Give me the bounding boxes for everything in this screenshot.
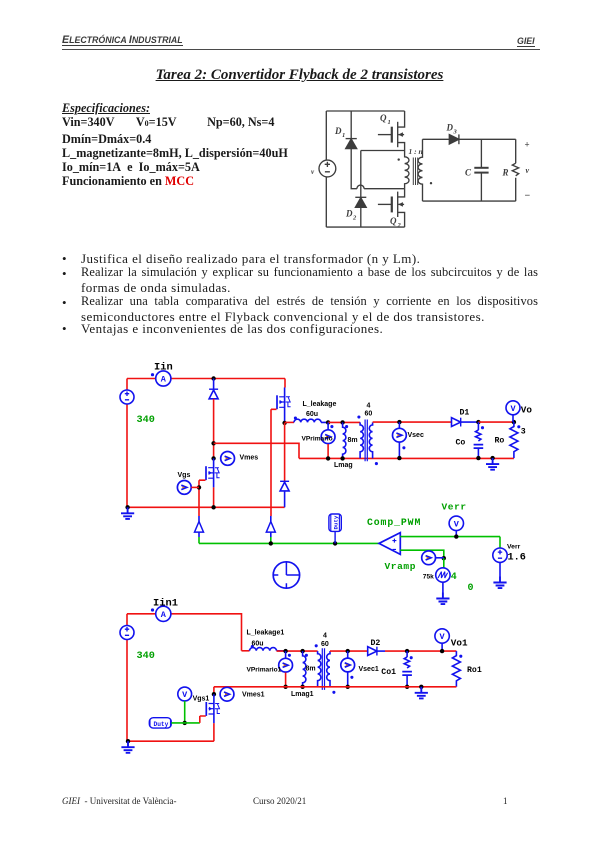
polarity dot Lmag1: [305, 654, 308, 657]
node: Vgs tap: [197, 485, 201, 489]
svg-text:D: D: [334, 126, 342, 136]
svg-text:340: 340: [137, 651, 155, 662]
title: [0, 67, 599, 84]
svg-text:340: 340: [137, 415, 155, 426]
wire: C1 left rail: [126, 379, 128, 508]
wire: primary return run: [214, 443, 299, 458]
wire: inner box top (D2 to primary top): [361, 150, 405, 152]
voltmeter Vsec1: [347, 651, 349, 658]
svg-text:C: C: [465, 168, 472, 178]
svg-text:Lmag1: Lmag1: [291, 691, 314, 698]
node: output top: [476, 420, 480, 424]
wire: secondary top run C2: [330, 650, 368, 652]
wire: secondary top run: [373, 421, 452, 423]
node: Vsec top: [397, 420, 401, 424]
svg-text:D2: D2: [371, 639, 381, 648]
wire: C2 lower rail: [214, 686, 457, 688]
diode D2 (output rectifier): [368, 647, 385, 656]
wire: C2 top rail: [127, 614, 242, 651]
header rule: [62, 49, 540, 50]
voltmeter Vo1: [435, 629, 449, 651]
diode D2: [345, 151, 366, 228]
source V 340 circuit2: [120, 626, 134, 640]
svg-text:60u: 60u: [306, 411, 318, 418]
ammeter Iin: [151, 371, 171, 386]
svg-text:4: 4: [367, 402, 371, 409]
svg-text:Vsec1: Vsec1: [359, 666, 379, 673]
svg-text:8m: 8m: [348, 437, 358, 444]
svg-text:V: V: [440, 632, 446, 642]
svg-text:Co: Co: [456, 438, 466, 447]
transformer T2 primary: [318, 651, 321, 687]
svg-text:Co1: Co1: [381, 668, 396, 677]
svg-text:R: R: [502, 168, 509, 178]
inductor Lmag1: [303, 651, 306, 687]
node: Ro top: [512, 420, 516, 424]
node: Verr tap: [454, 534, 458, 538]
wire: to Ro: [478, 421, 514, 423]
svg-text:D1: D1: [460, 408, 470, 417]
svg-text:A: A: [161, 375, 167, 385]
svg-text:Duty: Duty: [332, 515, 339, 529]
header right: GIEI: [517, 36, 535, 46]
probe Duty (horizontal): [149, 718, 171, 728]
wire: Q low source to rail: [213, 487, 215, 507]
node: primary-return junction: [211, 441, 215, 445]
diode D3: [446, 123, 516, 145]
voltmeter Vramp: [422, 551, 436, 565]
voltmeter VPrimario: [327, 422, 329, 429]
node: Lmag1 top: [300, 649, 304, 653]
wire: bottom rail: [326, 226, 404, 228]
wire: top rail: [326, 110, 404, 112]
svg-text:Vo: Vo: [521, 405, 533, 416]
svg-text:2: 2: [397, 222, 402, 229]
footer: [62, 796, 177, 806]
transformer phase dot primary: [398, 158, 400, 160]
svg-text:Verr: Verr: [507, 543, 521, 550]
voltmeter Vmes: [221, 452, 235, 466]
node: gate bus / arrow Q high: [269, 541, 273, 545]
diode D_low (clamp to -rail): [284, 423, 286, 481]
capacitor C: [465, 139, 489, 201]
transformer T2 phase dots: [315, 644, 318, 647]
svg-text:Vgs1: Vgs1: [193, 696, 210, 703]
svg-text:Ro1: Ro1: [467, 666, 482, 675]
transistor Q1f (MOSFET C2): [206, 694, 220, 723]
gating arrow Q high: [270, 516, 272, 537]
svg-text:D: D: [446, 123, 454, 133]
node: Vmes tap: [211, 456, 215, 460]
gating arrow Q low: [198, 516, 200, 537]
ground secondary C2: [419, 685, 423, 689]
comparator Comp_PWM: [379, 533, 400, 555]
wire: Q high source to leakage node: [284, 417, 286, 423]
svg-text:−: −: [525, 191, 531, 202]
svg-text:Lmag: Lmag: [334, 462, 353, 469]
svg-text:60: 60: [321, 641, 329, 648]
wire: C2 bottom rail: [127, 740, 214, 742]
wire: duty probe to gate (green): [171, 722, 200, 724]
diode D1: [334, 111, 405, 189]
svg-text:Vmes1: Vmes1: [242, 691, 265, 698]
svg-text:Ro: Ro: [495, 437, 505, 446]
svg-text:D: D: [345, 209, 353, 219]
transformer core: [413, 158, 417, 186]
wire: Q1f source to rail: [213, 723, 215, 741]
transistor Q high (MOSFET): [284, 379, 286, 388]
svg-text:A: A: [161, 610, 167, 620]
wire: comparator + input (green): [400, 536, 500, 538]
svg-text:1.6: 1.6: [508, 552, 526, 563]
wire: primary top run C2: [277, 650, 318, 652]
wire: to Lmag: [328, 421, 360, 423]
svg-text:75k: 75k: [423, 574, 434, 581]
svg-text:v: v: [526, 166, 530, 175]
transformer T1 primary: [360, 422, 363, 458]
resistor R: [502, 163, 519, 177]
polarity dot VPrimario: [330, 425, 333, 428]
svg-text:1: 1: [342, 132, 345, 139]
voltmeter VPrimario1: [285, 651, 287, 658]
node: duty/gate junction: [183, 721, 187, 725]
svg-text:Vramp: Vramp: [385, 561, 417, 572]
node: VPrimario1 top: [283, 649, 287, 653]
wire: gate stub C2: [200, 716, 206, 723]
voltmeter Vsec: [398, 422, 400, 428]
transformer T2 core: [322, 648, 324, 690]
transformer secondary winding: [418, 139, 422, 201]
wire: drain riser C2: [213, 687, 215, 694]
voltmeter Vgs: [177, 481, 191, 495]
svg-text:3: 3: [453, 129, 458, 136]
node: gate bus / duty probe: [333, 541, 337, 545]
wire: secondary bottom: [423, 200, 516, 202]
source V 340 circuit1: [120, 390, 134, 404]
wire: left rail: [325, 111, 327, 227]
ground secondary C1: [490, 456, 494, 460]
transistor Q1: [378, 111, 405, 151]
node: Vmes1 tap: [212, 692, 216, 696]
wire: C1 lower rail (primary/secondary common): [299, 457, 514, 459]
svg-text:Iin: Iin: [154, 362, 173, 374]
diode D1 (output rectifier): [452, 418, 479, 427]
svg-text:Duty: Duty: [154, 721, 169, 728]
node: L_leakage / VPrimario: [326, 420, 330, 424]
node: leakage node: [282, 421, 286, 425]
ground under source C1: [125, 505, 129, 509]
wire: gate bus (green): [199, 542, 379, 544]
transistor Q2: [378, 189, 405, 229]
svg-text:Vo1: Vo1: [451, 637, 468, 648]
polarity dot VPrimario1: [288, 654, 291, 657]
svg-text:VPrimario1: VPrimario1: [247, 667, 282, 674]
svg-text:2: 2: [352, 215, 357, 222]
wire: gate run Q low: [199, 480, 206, 516]
svg-text:V: V: [454, 519, 460, 529]
svg-text:VPrimario: VPrimario: [302, 435, 333, 442]
wire: Vgs1 to gate bus (green): [184, 701, 186, 723]
wire: C1 top rail: [127, 378, 285, 380]
wire: gate run Q high: [271, 409, 277, 516]
transformer T2 secondary: [327, 651, 330, 687]
svg-text:Iin1: Iin1: [153, 598, 178, 610]
svg-text:4: 4: [323, 633, 327, 640]
svg-text:v: v: [311, 168, 315, 176]
transformer primary winding: [405, 151, 409, 189]
svg-text:60u: 60u: [252, 640, 264, 647]
svg-text:Q: Q: [380, 113, 387, 123]
svg-text:Q: Q: [390, 216, 397, 226]
node: source / bottom rail: [211, 505, 215, 509]
svg-text:0: 0: [468, 583, 474, 594]
svg-text:Comp_PWM: Comp_PWM: [367, 517, 421, 528]
svg-text:Vsec: Vsec: [408, 432, 424, 439]
inductor Lmag: [343, 422, 346, 458]
bullet list: [62, 251, 67, 267]
voltmeter Verr: [449, 516, 463, 537]
wire: C1 bottom rail: [127, 506, 285, 508]
svg-text:4: 4: [451, 572, 457, 583]
probe Duty (vertical): [329, 514, 341, 543]
wire: comparator - input (green): [400, 550, 444, 558]
diode D_up (clamp to +rail): [209, 379, 218, 399]
wire: C2 left rail: [126, 614, 128, 741]
inductor L_leakage1: [242, 650, 250, 652]
wire: secondary top: [423, 138, 450, 140]
source Verr 1.6V: [499, 537, 501, 548]
ground under source C2: [126, 739, 130, 743]
source sawtooth 75k / 4: [443, 558, 445, 568]
svg-text:Vgs: Vgs: [178, 472, 191, 479]
clock symbol: [273, 562, 299, 588]
voltmeter Vgs1: [178, 687, 192, 701]
polarity dot Lmag: [345, 425, 348, 428]
resistor Ro1: [452, 651, 460, 687]
svg-text:L_leakage1: L_leakage1: [247, 630, 285, 637]
transformer T1 secondary: [369, 422, 372, 458]
inductor L_leakage: [285, 421, 294, 423]
header left: ELECTRÓNICA INDUSTRIAL: [62, 34, 183, 46]
capacitor Co (with esr zigzag): [474, 422, 484, 458]
ammeter Iin1: [151, 606, 171, 621]
source Vin: [311, 160, 336, 177]
svg-text:L_leakage: L_leakage: [303, 401, 337, 408]
transformer phase dot secondary: [430, 182, 432, 184]
svg-text:8m: 8m: [306, 666, 316, 673]
node: top rail / clamp diode: [211, 376, 215, 380]
svg-text:1 : n: 1 : n: [409, 147, 423, 156]
wire: secondary right rail: [515, 139, 517, 201]
node: ramp tap: [442, 556, 446, 560]
wire: output top C2: [385, 650, 456, 652]
svg-text:Vmes: Vmes: [240, 455, 259, 462]
specifications block: [62, 101, 288, 189]
svg-text:Verr: Verr: [442, 502, 467, 513]
svg-text:1: 1: [388, 119, 391, 126]
svg-text:V: V: [510, 404, 516, 414]
node: Co1 top: [405, 649, 409, 653]
node: Vsec1 top: [346, 649, 350, 653]
transformer T1 phase dots: [357, 415, 360, 418]
resistor Ro: [510, 422, 518, 458]
svg-text:3: 3: [521, 427, 526, 436]
voltmeter Vo: [506, 401, 520, 422]
svg-text:60: 60: [365, 411, 373, 418]
transformer T1 core: [365, 420, 367, 462]
transistor Q low (MOSFET): [206, 458, 220, 487]
voltmeter Vmes1: [220, 687, 234, 701]
capacitor Co1 (with esr zigzag): [402, 651, 412, 687]
svg-text:+: +: [525, 139, 530, 149]
node: Lmag top: [340, 420, 344, 424]
wire: D_up to drain node: [213, 399, 215, 459]
svg-text:V: V: [182, 690, 188, 700]
